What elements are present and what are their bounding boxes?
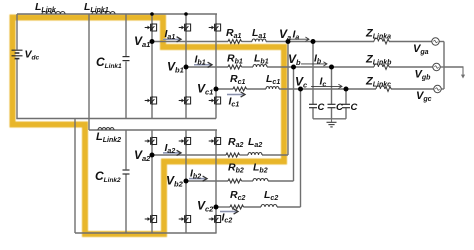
wire riser phase a — [287, 42, 289, 156]
node V_a — [286, 39, 291, 44]
wire row b grid side — [294, 66, 375, 68]
wire neutral tap — [444, 66, 464, 68]
wire row a grid side — [288, 41, 374, 43]
inductor L_a2 — [248, 153, 262, 156]
arrow I_a — [291, 38, 309, 40]
wire riser phase c — [300, 89, 302, 207]
node V_b — [291, 65, 296, 70]
wire row b1 — [186, 66, 228, 68]
node top bus leg a — [150, 12, 154, 16]
inductor L_b2 — [253, 179, 268, 182]
ac source V_gc — [434, 85, 441, 92]
orange overlay on bridge2 bottom bus — [83, 231, 164, 237]
wire bridge2 leg c segments — [215, 130, 217, 137]
arrow I_b1 — [194, 64, 211, 66]
svg-text:C: C — [318, 102, 325, 113]
resistor R_c2 — [230, 205, 244, 209]
transistor Q8 b2 top — [179, 137, 191, 146]
node V_c1 — [214, 87, 219, 92]
wire row c1 — [216, 88, 233, 90]
svg-text:C: C — [351, 102, 358, 113]
impedance Z_Linka — [374, 39, 383, 42]
transistor Q12 c2 bottom — [209, 215, 221, 224]
inductor L_Link2 — [98, 128, 114, 130]
node V_b1 — [184, 65, 189, 70]
capacitor C_Link1 — [123, 56, 130, 58]
impedance Z_Linkc — [376, 86, 385, 89]
transistor Q7 a2 top — [145, 137, 157, 146]
resistor R_a1 — [228, 40, 242, 44]
wire row b2 — [186, 180, 228, 182]
node V_c — [298, 87, 303, 92]
node V_a1 — [150, 39, 155, 44]
ac source V_gb — [433, 63, 440, 70]
ground — [331, 119, 333, 122]
wire C_Link1 rail lower — [125, 62, 127, 119]
arrow I_a2 — [163, 152, 180, 154]
wire V_gb right stub — [440, 66, 444, 68]
wire riser phase b — [293, 67, 295, 181]
wire DC-link mid vertical — [88, 14, 90, 130]
transistor Q2 b1 top — [179, 23, 191, 32]
arrow I_a1 — [163, 38, 180, 40]
wire bridge2 bottom bus — [75, 232, 217, 234]
wire row c2 — [216, 206, 230, 208]
arrow I_c2 — [220, 211, 237, 213]
transistor Q1 a1 top — [145, 23, 157, 32]
arrow neutral down — [462, 67, 464, 76]
ac source V_ga — [432, 38, 439, 45]
capacitor Cc — [342, 103, 350, 105]
wire bridge2 leg b segments — [185, 130, 187, 137]
resistor R_c1 — [233, 87, 247, 91]
wire row a1 — [152, 41, 228, 43]
inductor L_c1 — [266, 87, 279, 89]
inductor L_Link — [42, 12, 65, 15]
wire bridge2 leg a segments — [151, 130, 153, 137]
orange highlight loop — [13, 18, 285, 235]
inductor L_b1 — [253, 65, 267, 68]
node cap a tap — [311, 39, 316, 44]
wire left rail upper — [16, 14, 18, 50]
arrow I_b — [301, 63, 327, 65]
transistor Q4 a1 bottom — [145, 96, 157, 105]
wire V_gc right stub — [441, 88, 444, 90]
wire C_Link1 rail upper — [125, 14, 127, 56]
impedance Z_Linkb — [374, 64, 383, 67]
wire bridge1 leg c segments — [215, 14, 217, 23]
node cap c tap — [344, 87, 349, 92]
arrow I_b2 — [189, 178, 206, 180]
resistor R_b1 — [228, 65, 242, 69]
svg-text:C: C — [336, 102, 343, 113]
wire DC return vertical — [74, 119, 76, 234]
wire V_ga right stub — [439, 41, 444, 43]
wire cap b riser — [331, 67, 333, 104]
wire top DC bus — [17, 13, 217, 15]
wire cap a riser — [312, 42, 314, 104]
wire C_Link2 rail upper — [125, 130, 127, 169]
transistor Q11 b2 bottom — [179, 215, 191, 224]
transistor Q3 c1 top — [209, 23, 221, 32]
resistor R_b2 — [228, 179, 242, 183]
wire bridge1 bottom bus — [16, 118, 216, 120]
resistor R_a2 — [226, 153, 240, 157]
node V_a2 — [150, 153, 155, 158]
wire row c grid side — [301, 88, 377, 90]
capacitor C_Link2 — [123, 169, 130, 171]
wire C_Link2 rail lower — [125, 175, 127, 234]
wire grid right vertical — [443, 42, 445, 90]
inductor L_a1 — [252, 39, 266, 42]
wire cap bottom bus — [313, 118, 346, 120]
wire left rail lower — [16, 59, 18, 119]
node V_c2 — [214, 205, 219, 210]
transistor Q5 b1 bottom — [179, 96, 191, 105]
wire row a2 — [152, 154, 226, 156]
battery V_dc — [12, 49, 23, 51]
arrow I_c1 — [227, 94, 244, 96]
inductor L_c2 — [261, 205, 277, 208]
node V_b2 — [184, 179, 189, 184]
wire bridge1 leg b segments — [185, 14, 187, 23]
transistor Q6 c1 bottom — [209, 96, 221, 105]
capacitor Cb — [328, 103, 336, 105]
node cap b tap — [329, 65, 334, 70]
arrow I_c — [311, 85, 342, 87]
node top bus leg b — [184, 12, 188, 16]
wire cap c riser — [345, 89, 347, 104]
transistor Q10 a2 bottom — [145, 215, 157, 224]
inductor L_Link1 — [92, 12, 115, 15]
wire bridge1 leg a segments — [151, 14, 153, 23]
transistor Q9 c2 top — [209, 137, 221, 146]
capacitor Ca — [309, 103, 317, 105]
wire bridge2 top bus — [89, 129, 217, 131]
